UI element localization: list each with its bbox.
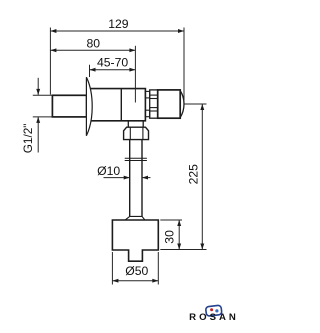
svg-text:30: 30 <box>162 230 176 244</box>
axis extension line <box>134 46 136 103</box>
dim O50 line <box>112 280 158 282</box>
arrow 80 right <box>129 48 135 52</box>
dim 80 line <box>50 49 135 51</box>
outlet pipe <box>129 140 131 217</box>
body internal line <box>120 89 122 121</box>
dim 30 line <box>178 220 180 250</box>
collar tab bottom <box>145 110 149 117</box>
hex nut <box>124 127 149 139</box>
shared bottom extension <box>160 249 206 251</box>
dim 30 extension top <box>160 219 182 221</box>
svg-text:Ø10: Ø10 <box>97 164 120 178</box>
logo icon <box>205 305 222 316</box>
dim G1/2 line top <box>37 78 39 95</box>
arrow 45-70 right <box>129 68 135 72</box>
arrow O50 right <box>152 279 158 283</box>
arrow G12 up <box>36 117 40 123</box>
dim 45-70 extension left <box>89 65 91 77</box>
dim 225 extension top <box>185 103 207 105</box>
arrow O10 right <box>124 176 130 180</box>
svg-text:80: 80 <box>87 36 101 50</box>
svg-text:G1/2": G1/2" <box>21 124 35 154</box>
collar tab top <box>145 91 149 98</box>
arrow 30 up <box>177 220 181 226</box>
svg-text:ROSAN: ROSAN <box>189 312 239 323</box>
logo red dot <box>210 308 213 311</box>
arrow 129 left <box>50 29 56 33</box>
inlet pipe <box>52 95 86 117</box>
dim 129 line <box>50 30 184 32</box>
dim G1/2 line bottom <box>37 117 39 153</box>
dim O10 line left <box>104 177 130 179</box>
svg-text:45-70: 45-70 <box>97 56 128 70</box>
arrow 225 down <box>200 244 204 250</box>
dim 129 extension right <box>183 28 185 101</box>
arrow 45-70 left <box>90 68 96 72</box>
svg-text:Ø50: Ø50 <box>125 264 148 278</box>
arrow 30 down <box>177 244 181 250</box>
push button <box>158 90 181 118</box>
flare <box>125 216 145 220</box>
svg-text:225: 225 <box>187 164 201 185</box>
arrow G12 down <box>36 89 40 95</box>
dim O50 extension left <box>111 252 113 285</box>
arrow 80 left <box>50 48 56 52</box>
dim O10 line right <box>142 177 151 179</box>
dim 45-70 line <box>90 69 136 71</box>
valve body <box>90 89 145 121</box>
neck under body <box>127 121 129 127</box>
arrow O10 left <box>142 176 148 180</box>
G1/2 extension bottom <box>33 116 53 118</box>
dim 129 extension left <box>49 28 51 95</box>
arrow 129 right <box>178 29 184 33</box>
arrow O50 left <box>112 279 118 283</box>
svg-text:129: 129 <box>108 17 129 31</box>
arrow 225 up <box>200 104 204 110</box>
outlet cylinder with stub <box>112 220 158 261</box>
pipe joint <box>125 157 147 159</box>
dim O50 extension right <box>157 252 159 285</box>
logo blue dot <box>215 309 218 312</box>
wall flange <box>86 77 92 136</box>
dim 225 line <box>201 104 203 250</box>
G1/2 extension top <box>33 94 53 96</box>
collar band <box>150 90 158 118</box>
button cap <box>180 91 184 118</box>
